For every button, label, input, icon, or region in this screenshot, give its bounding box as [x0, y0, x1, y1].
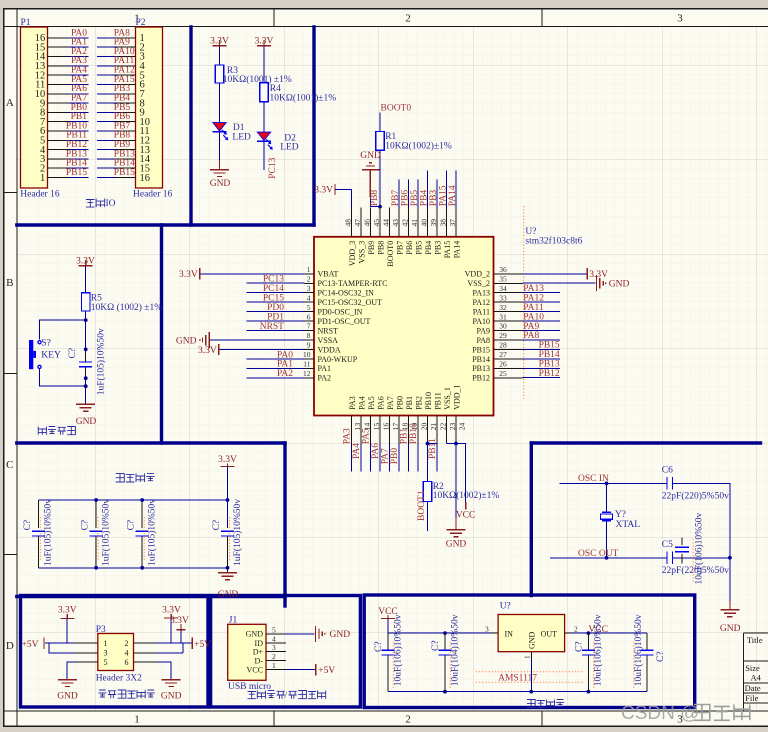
net label PB6 vertical	[401, 190, 411, 207]
svg-text:KEY: KEY	[41, 351, 61, 361]
wire stub net PB5 above MCU	[417, 179, 419, 207]
junction right rail	[728, 556, 732, 560]
P1 pin 7	[40, 117, 68, 128]
svg-text:PD0-OSC_IN: PD0-OSC_IN	[318, 308, 363, 317]
svg-text:PA7: PA7	[381, 448, 391, 464]
svg-text:3: 3	[485, 624, 489, 633]
svg-text:GND: GND	[76, 417, 97, 427]
wire J1 VCC to +5V	[286, 669, 315, 671]
P1 pin 3	[40, 154, 68, 165]
svg-text:30: 30	[499, 322, 507, 331]
P3 pin 2	[125, 639, 157, 648]
wire pin2 to 3.3V rails and +5V	[156, 618, 191, 643]
net label PB14	[114, 159, 135, 169]
net label PA6 vertical	[371, 443, 381, 459]
U? pin 23 (VSS_1)	[443, 387, 457, 443]
svg-text:C?: C?	[81, 520, 91, 531]
net label PB15	[539, 341, 560, 351]
svg-text:PB2: PB2	[415, 396, 424, 410]
U? pin 3 (PC14-OSC32_IN)	[305, 284, 375, 298]
ground reset block	[76, 404, 97, 427]
partition line above decoupling block	[17, 441, 285, 444]
svg-text:PB1: PB1	[400, 428, 410, 445]
wire net PA12 at P2	[97, 74, 117, 76]
wire net PA3 at P1	[69, 65, 89, 67]
svg-text:10KΩ(1001)±1%: 10KΩ(1001)±1%	[270, 92, 337, 103]
wire stub net PB4 above MCU	[427, 171, 429, 208]
net label PA13	[523, 284, 544, 294]
svg-text:PA3: PA3	[348, 396, 357, 410]
ground left of P3	[57, 680, 78, 702]
svg-text:48: 48	[343, 219, 352, 227]
svg-text:42: 42	[400, 219, 409, 227]
power 3.3V for VDD_3	[314, 184, 335, 196]
wire node to ground	[85, 386, 87, 404]
svg-text:VDDA: VDDA	[318, 345, 341, 354]
svg-text:PB14: PB14	[472, 355, 490, 364]
designator P2	[136, 18, 146, 28]
label quou dianlu	[116, 473, 155, 482]
svg-text:PA11: PA11	[473, 308, 490, 317]
junction crystal top	[605, 482, 609, 486]
net label PA0	[71, 28, 87, 38]
decoupling bottom bus wire	[38, 567, 227, 569]
svg-text:37: 37	[448, 219, 457, 227]
wire net PB15 from MCU	[523, 348, 561, 350]
ground near BOOT0	[360, 151, 381, 197]
wire stub net PB3 above MCU	[436, 179, 438, 207]
svg-text:6: 6	[307, 312, 311, 321]
svg-text:3: 3	[104, 649, 108, 658]
U? pin 18 (PB0)	[396, 396, 410, 443]
wire R3 to D1	[219, 83, 221, 122]
partition line below decoupling block	[17, 595, 285, 598]
U? pin 1 (VBAT)	[305, 265, 339, 279]
P1 pin 11	[35, 80, 68, 91]
capacitor C? LDO at x=388	[374, 614, 403, 691]
U? pin 45 (PB8)	[372, 208, 386, 255]
wire net PD0 to MCU	[247, 311, 305, 313]
capacitor C? LDO at x=588.4	[574, 614, 603, 691]
ground at VSS_2	[596, 275, 629, 291]
wire net PB12 from MCU	[523, 377, 561, 379]
wire net PC13 to MCU	[247, 282, 305, 284]
svg-text:P3: P3	[96, 625, 106, 635]
svg-text:D1: D1	[233, 123, 245, 133]
net label PB4 vertical	[420, 190, 430, 207]
net label PA15	[114, 75, 135, 85]
svg-text:PD1-OSC_OUT: PD1-OSC_OUT	[318, 317, 371, 326]
net label PB12	[539, 369, 560, 379]
wire 3.3V to R5	[85, 266, 87, 293]
svg-text:A4: A4	[751, 673, 762, 683]
svg-text:Header 16: Header 16	[20, 190, 60, 200]
svg-text:VDD_2: VDD_2	[465, 270, 490, 279]
wire VBAT to 3.3V	[201, 273, 305, 275]
capacitor C? decoupling 4	[212, 499, 243, 568]
orange marker at decoupling cap 4	[229, 517, 231, 560]
wire net PA7 at P1	[69, 102, 89, 104]
U? pin 15 (PA5)	[367, 396, 381, 443]
svg-text:27: 27	[499, 350, 507, 359]
decoupling top bus wire	[38, 499, 227, 501]
svg-text:22pF(220)5%50v: 22pF(220)5%50v	[662, 491, 729, 502]
svg-text:C?: C?	[656, 651, 666, 662]
resistor R5	[82, 293, 163, 313]
wire D2 to PC13	[263, 141, 265, 170]
U? pin 29 (PA8)	[477, 331, 523, 345]
partition line between header block and LED block	[189, 27, 192, 225]
net label PB11 vertical	[428, 438, 438, 459]
U? pin 35 (VSS_2)	[467, 274, 522, 288]
crystal Y? XTAL	[601, 510, 641, 530]
svg-text:PB3: PB3	[434, 241, 443, 255]
wire net PB1 at P1	[69, 121, 89, 123]
wire net PB15 at P2	[97, 177, 117, 179]
net label PB13	[114, 149, 135, 159]
wire stub net PA3 below MCU	[351, 444, 353, 472]
svg-text:1uF(105)10%50v: 1uF(105)10%50v	[43, 499, 54, 566]
wire OSC IN line	[559, 482, 666, 484]
svg-text:PA1: PA1	[277, 360, 293, 370]
svg-text:VSSA: VSSA	[318, 336, 339, 345]
net label PB12	[66, 140, 87, 150]
svg-text:PA5: PA5	[367, 396, 376, 410]
label chengxu shaolu tiaoshi jiekou	[248, 691, 326, 701]
U? pin 27 (PB14)	[472, 350, 522, 364]
wire pin4 row	[156, 643, 183, 653]
P2 pin 11	[117, 126, 150, 137]
svg-text:2: 2	[405, 714, 411, 726]
J1 pin 1 (VCC)	[247, 661, 286, 674]
svg-text:+5V: +5V	[22, 640, 39, 650]
net label PB15	[66, 168, 87, 178]
net label PB13	[66, 149, 87, 159]
wire net PA1 at P1	[69, 46, 89, 48]
U? pin 40 (PB4)	[419, 208, 433, 255]
svg-text:PC14-OSC32_IN: PC14-OSC32_IN	[318, 289, 375, 298]
wire stub net PA4 below MCU	[360, 444, 362, 472]
svg-text:BOOT0: BOOT0	[386, 241, 395, 267]
svg-text:1: 1	[134, 714, 140, 726]
net label PA6	[71, 84, 87, 94]
capacitor C6	[662, 466, 729, 502]
svg-text:PA14: PA14	[448, 185, 458, 206]
orange marker line near U?	[523, 206, 525, 399]
U? pin 2 (PC13-TAMPER-RTC)	[305, 274, 388, 288]
svg-text:GND: GND	[360, 151, 381, 161]
wire stub net PA7 below MCU	[389, 444, 391, 472]
svg-text:BOOT1: BOOT1	[417, 490, 427, 521]
J1 pin 3 (D+)	[253, 643, 286, 656]
U? pin 12 (PA2)	[303, 369, 331, 383]
regulator U? AMS1117	[485, 602, 578, 660]
net label PA9	[523, 322, 539, 332]
P1 pin 16	[35, 33, 69, 44]
wire net PA9 from MCU	[523, 330, 561, 332]
U? pin 47 (VSS_3)	[353, 208, 367, 264]
net label PB5	[114, 103, 131, 113]
svg-text:25: 25	[499, 369, 507, 378]
svg-text:U?: U?	[500, 602, 511, 612]
ground for D1	[210, 170, 231, 189]
junction above C7	[84, 348, 88, 352]
U? pin 38 (PA15)	[438, 208, 452, 259]
P1 pin 14	[35, 52, 69, 63]
svg-text:36: 36	[499, 265, 507, 274]
wire VSS_2 to ground	[523, 282, 596, 284]
svg-text:Header 16: Header 16	[133, 190, 173, 200]
svg-text:2: 2	[272, 652, 276, 661]
wire net PA2 to MCU	[247, 377, 305, 379]
net label PB8	[114, 131, 131, 141]
P2 pin 13	[117, 145, 151, 156]
P2 pin 14	[117, 154, 151, 165]
svg-text:C?: C?	[431, 640, 441, 651]
power +5V left of P3	[22, 638, 44, 650]
wire R2 to BOOT1	[427, 502, 429, 532]
svg-text:39: 39	[429, 219, 438, 227]
value stm32f103c8t6	[525, 235, 582, 246]
power 3.3V left of P3	[58, 606, 77, 619]
net label PA11	[523, 303, 544, 313]
power VCC input	[378, 607, 398, 619]
wire net PA1 to MCU	[247, 367, 305, 369]
orange marker at stray capacitor	[692, 539, 694, 583]
U? pin 41 (PB5)	[410, 208, 424, 255]
net label PD1	[267, 312, 284, 322]
svg-text:26: 26	[499, 360, 507, 369]
svg-text:2: 2	[125, 639, 129, 648]
svg-text:15: 15	[372, 422, 381, 430]
svg-text:BOOT0: BOOT0	[381, 104, 412, 114]
svg-text:1: 1	[272, 661, 276, 670]
svg-text:GND: GND	[57, 692, 78, 702]
net label PB11	[66, 131, 87, 141]
svg-text:3.3V: 3.3V	[589, 270, 608, 280]
wire node through capacitor	[85, 320, 87, 386]
orange marker at decoupling cap 3	[143, 517, 145, 560]
svg-text:PB1: PB1	[405, 396, 414, 410]
svg-text:4: 4	[125, 649, 129, 658]
wire VSS_1 to VDD_1 node	[447, 443, 457, 445]
net label PB3 vertical	[429, 190, 439, 207]
wire stub net PA14 above MCU	[455, 171, 457, 208]
svg-text:10KΩ (1002) ±1%: 10KΩ (1002) ±1%	[91, 302, 162, 313]
svg-text:PB6: PB6	[405, 241, 414, 255]
svg-text:33: 33	[499, 293, 507, 302]
P2 pin 1	[117, 33, 145, 44]
svg-text:S?: S?	[41, 339, 51, 349]
net label PA7 vertical	[381, 448, 391, 464]
net label OSC IN	[578, 474, 609, 484]
svg-text:1: 1	[104, 639, 108, 648]
net label PA9	[114, 38, 130, 48]
wire net PA2 at P1	[69, 56, 89, 58]
capacitor C5	[662, 540, 729, 576]
svg-text:40: 40	[419, 219, 428, 227]
svg-text:D-: D-	[255, 656, 264, 665]
svg-text:3.3V: 3.3V	[198, 346, 217, 356]
power 3.3V right of P3 upper	[162, 606, 181, 618]
svg-text:PA6: PA6	[371, 443, 381, 459]
wire VCC to regulator IN	[388, 618, 490, 633]
svg-text:35: 35	[499, 274, 507, 283]
wire pin6 to ground right	[156, 662, 171, 679]
junction at pin45	[378, 205, 382, 209]
svg-text:1: 1	[40, 173, 45, 184]
wire node to VCC	[456, 444, 466, 503]
svg-text:C: C	[6, 459, 13, 471]
svg-text:6: 6	[125, 658, 129, 667]
junction LDO output cap 3	[587, 631, 591, 635]
junction pin21/pin22	[426, 442, 430, 446]
U? pin 5 (PD0-OSC_IN)	[305, 303, 363, 317]
wire 3.3V to R4	[263, 46, 265, 83]
wire crystal vertical	[606, 483, 608, 557]
wire pin1 to 3.3V and +5V	[45, 618, 75, 643]
P3 pin 3	[75, 649, 108, 658]
net label PB6	[114, 112, 131, 122]
svg-text:20: 20	[419, 422, 428, 430]
net label PB3	[114, 84, 131, 94]
U? pin 46 (PB9)	[362, 208, 376, 255]
svg-text:PA12: PA12	[523, 293, 544, 303]
net label PB1	[71, 112, 88, 122]
svg-text:PB15: PB15	[114, 168, 135, 178]
U? pin 31 (PA10)	[473, 312, 523, 326]
LED D2	[257, 132, 299, 153]
wire net PB10 at P1	[69, 130, 89, 132]
wire right rail to ground	[729, 558, 731, 610]
junction decoupling bottom 2	[140, 566, 144, 570]
svg-text:/: /	[285, 691, 288, 701]
svg-text:PB9: PB9	[367, 241, 376, 255]
svg-text:PA4: PA4	[358, 396, 367, 410]
P1 value Header 16	[20, 190, 60, 200]
svg-text:PB13: PB13	[472, 364, 490, 373]
svg-text:C?: C?	[127, 520, 137, 531]
svg-text:PA9: PA9	[477, 326, 491, 335]
svg-text:5: 5	[104, 658, 108, 667]
svg-text:PB10: PB10	[424, 392, 433, 410]
wire stub net PB1 below MCU	[408, 444, 410, 472]
svg-text:PB8: PB8	[377, 241, 386, 255]
box around USB block	[211, 596, 361, 708]
svg-text:PC13: PC13	[263, 275, 284, 285]
wire regulator GND pin down	[530, 660, 532, 692]
wire VDDA to 3.3V	[220, 349, 305, 351]
svg-text:2: 2	[405, 13, 411, 25]
ground at VSSA	[176, 332, 209, 348]
svg-text:PA7: PA7	[386, 396, 395, 410]
wire pin21 to R2	[428, 444, 438, 482]
svg-text:D+: D+	[253, 647, 264, 656]
svg-text:13: 13	[353, 422, 362, 430]
P1 pin 8	[40, 108, 68, 119]
wire net PB6 at P2	[97, 121, 117, 123]
svg-text:PA10: PA10	[523, 312, 544, 322]
junction VSS_1/VDD_1	[454, 442, 458, 446]
net label PC13 vertical	[268, 157, 278, 178]
svg-text:2: 2	[307, 274, 311, 283]
net label PB10	[66, 121, 87, 131]
svg-text:R1: R1	[385, 132, 396, 142]
svg-text:PA4: PA4	[352, 443, 362, 459]
net label PB13	[539, 360, 560, 370]
ground right of P3	[161, 680, 182, 702]
switch S? KEY	[29, 339, 61, 370]
partition line left of oscillator block	[530, 443, 533, 596]
svg-text:NRST: NRST	[260, 322, 284, 332]
svg-text:NRST: NRST	[318, 326, 339, 335]
U? pin 14 (PA4)	[358, 396, 372, 443]
svg-text:PA2: PA2	[277, 369, 293, 379]
svg-text:34: 34	[499, 284, 507, 293]
U? pin 13 (PA3)	[348, 396, 362, 443]
wire stub net PA5 below MCU	[370, 444, 372, 472]
wire net PA9 at P2	[97, 46, 117, 48]
orange marker at decoupling cap 2	[97, 517, 99, 560]
svg-text:43: 43	[391, 219, 400, 227]
net label BOOT1 vertical	[417, 490, 427, 521]
P2 pin 16	[117, 173, 151, 184]
value AMS1117 with orange markers	[476, 672, 583, 684]
net label NRST	[260, 322, 284, 332]
junction crystal bottom	[605, 556, 609, 560]
svg-text:PA3: PA3	[343, 428, 353, 444]
svg-text:1uF(105)10%50v: 1uF(105)10%50v	[232, 499, 243, 566]
svg-text:C?: C?	[23, 520, 33, 531]
wire net PB3 at P2	[97, 93, 117, 95]
svg-text:PB7: PB7	[391, 190, 401, 207]
U? pin 10 (PA0-WKUP)	[303, 350, 358, 364]
wire net PA0 at P1	[69, 37, 89, 39]
net label PA2	[277, 369, 293, 379]
U? pin 28 (PB15)	[472, 341, 522, 355]
net label PB0 vertical	[390, 448, 400, 465]
svg-text:PA2: PA2	[318, 374, 332, 383]
P1 pin 10	[35, 89, 69, 100]
U? pin 24 (VDD_1)	[453, 384, 467, 443]
svg-text:PB0: PB0	[390, 448, 400, 465]
U? pin 34 (PA13)	[473, 284, 523, 298]
wire OSC OUT line	[550, 557, 667, 559]
U? pin 32 (PA11)	[473, 303, 523, 317]
svg-text:GND: GND	[720, 624, 741, 634]
net label PA3 vertical	[343, 428, 353, 444]
svg-text:45: 45	[372, 219, 381, 227]
wire net PA8 from MCU	[523, 339, 561, 341]
wire 3.3V to pin 48	[335, 190, 352, 208]
svg-text:XTAL: XTAL	[616, 520, 641, 530]
wire D1 to ground	[219, 132, 221, 170]
svg-text:1uF(105)10%50v: 1uF(105)10%50v	[147, 499, 158, 566]
net label PD0	[267, 303, 284, 313]
power 3.3V at VDD_2	[587, 268, 608, 280]
wire switch bottom to node	[40, 369, 86, 387]
wire stub net PB11 below MCU	[436, 444, 438, 472]
svg-text:Title: Title	[747, 635, 763, 645]
svg-text:Date: Date	[745, 683, 761, 693]
junction at reset bottom corner	[84, 384, 88, 388]
net label PB14	[539, 350, 560, 360]
wire 3.3V to R3	[219, 46, 221, 65]
net label PA3	[71, 56, 87, 66]
svg-text:17: 17	[391, 422, 400, 430]
wire net PB14 at P2	[97, 167, 117, 169]
wire net PA0 to MCU	[247, 358, 305, 360]
